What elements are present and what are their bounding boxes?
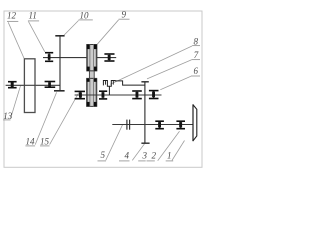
leader line label 10 — [64, 21, 79, 36]
neck between sliding gears — [89, 71, 94, 79]
double sliding gear (hatched block) upper — [87, 45, 97, 71]
big gear 4 (tall vertical with T ends) — [141, 82, 149, 143]
shaft IV (output, bottom right) — [112, 124, 193, 126]
pulley (tall rectangle) on shaft I — [24, 59, 35, 113]
svg-text:6: 6 — [194, 66, 199, 76]
clutch stem to shaft III — [108, 86, 110, 95]
shaft II (upper) — [43, 57, 116, 59]
leader line label 15 — [50, 92, 79, 144]
svg-text:13: 13 — [3, 111, 13, 121]
gear on shaft IV right — [176, 121, 185, 129]
svg-text:7: 7 — [194, 50, 199, 60]
leader line label 6 — [160, 76, 191, 89]
svg-text:9: 9 — [122, 10, 127, 20]
gear on shaft II left — [45, 53, 53, 62]
svg-text:15: 15 — [40, 137, 50, 147]
coupling — [127, 120, 130, 130]
border frame — [4, 11, 202, 167]
wheel (disc with rim arc) — [193, 104, 197, 141]
leader line label 2 — [158, 131, 180, 160]
leader line label 9 — [97, 20, 118, 44]
svg-text:12: 12 — [7, 10, 17, 20]
gear on shaft I left — [8, 82, 17, 88]
svg-text:5: 5 — [101, 150, 106, 160]
leader line label 11 — [29, 22, 45, 52]
jaw clutch (square wave) — [103, 81, 144, 87]
svg-text:11: 11 — [29, 10, 37, 20]
svg-text:14: 14 — [26, 137, 36, 147]
gear on shaft I right — [45, 82, 56, 88]
leader line label 14 — [35, 92, 56, 144]
leader line label 5 — [106, 125, 123, 160]
gear on shaft IV left — [155, 121, 164, 129]
double sliding gear (hatched block) lower — [87, 78, 97, 106]
svg-text:1: 1 — [167, 150, 172, 160]
leader line label 4 — [132, 144, 144, 161]
leader line label 8 — [110, 46, 192, 84]
svg-text:8: 8 — [194, 36, 199, 46]
gear on shaft III second — [99, 91, 107, 99]
gear on shaft II right — [104, 54, 114, 61]
svg-text:4: 4 — [125, 150, 130, 160]
leader line label 1 — [172, 141, 185, 161]
leader line label 13 — [11, 86, 21, 119]
leader line label 12 — [8, 22, 24, 58]
svg-text:3: 3 — [142, 150, 148, 160]
shaft III (middle) — [75, 94, 162, 96]
gear on shaft III far left — [75, 91, 85, 98]
big gear 10 on shaft II — [54, 36, 65, 91]
gear on shaft III fourth — [149, 91, 159, 99]
svg-text:2: 2 — [152, 150, 157, 160]
svg-text:10: 10 — [80, 10, 90, 20]
leader line label 7 — [147, 60, 192, 79]
gear on shaft III third — [132, 91, 142, 99]
shaft I (left, pulley shaft) — [6, 84, 60, 86]
